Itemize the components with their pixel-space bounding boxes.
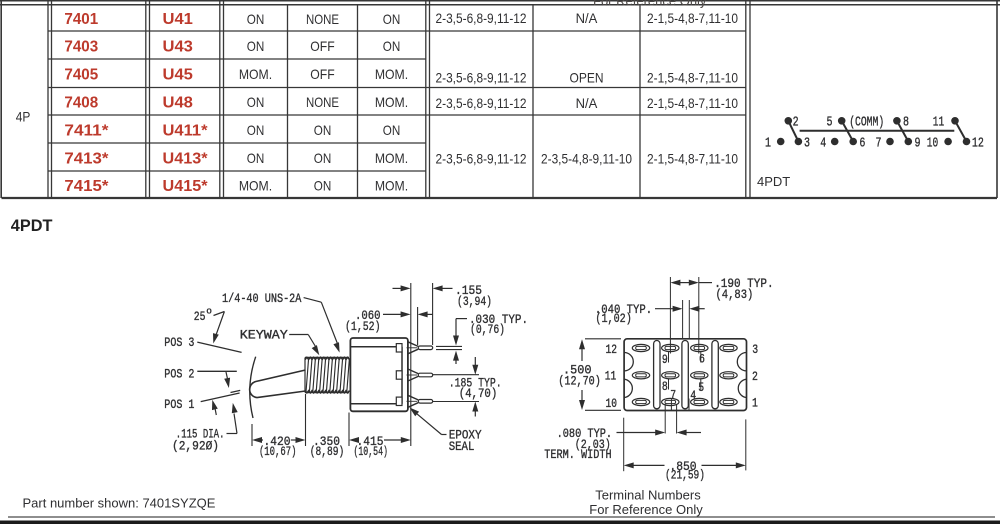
terminal lug <box>720 372 737 379</box>
divider slot <box>682 341 688 409</box>
svg-text:ON: ON <box>247 11 265 27</box>
body wall notch <box>396 371 402 379</box>
dim .850 <box>623 418 625 472</box>
thread crest serration top <box>305 357 349 359</box>
svg-text:2-3,5-6,8-9,11-12: 2-3,5-6,8-9,11-12 <box>436 69 527 85</box>
svg-text:U43: U43 <box>163 38 193 55</box>
svg-text:ON: ON <box>314 150 332 166</box>
svg-text:25: 25 <box>194 309 206 324</box>
terminal pin <box>418 400 433 404</box>
svg-text:(21,59): (21,59) <box>665 468 705 483</box>
svg-text:(10,54): (10,54) <box>353 444 388 459</box>
label leaders <box>668 351 670 363</box>
svg-text:(1,02): (1,02) <box>595 311 631 326</box>
svg-text:6: 6 <box>699 352 705 367</box>
svg-text:2-3,5-6,8-9,11-12: 2-3,5-6,8-9,11-12 <box>436 151 527 167</box>
package outline <box>624 339 746 411</box>
ext lines .190 <box>669 277 671 354</box>
double divider: connected terminals | schematic cell <box>746 1 750 198</box>
svg-text:(10,67): (10,67) <box>259 444 297 459</box>
svg-text:7401: 7401 <box>64 11 98 28</box>
wire pole contact 2-3 <box>788 121 798 142</box>
svg-text:U411*: U411* <box>163 122 209 139</box>
svg-text:9: 9 <box>662 352 668 367</box>
svg-text:2: 2 <box>752 369 758 384</box>
threaded bushing outline 1/4-40 <box>305 357 349 359</box>
short line above POS1 leader <box>231 390 241 392</box>
25 deg angle arrow (upper) <box>226 372 228 381</box>
terminal lug <box>662 372 679 379</box>
svg-text:NONE: NONE <box>306 11 339 27</box>
svg-text:3: 3 <box>804 135 810 151</box>
svg-text:2-3,5-4,8-9,11-10: 2-3,5-4,8-9,11-10 <box>541 151 632 167</box>
body inner bottom wall <box>350 403 402 405</box>
terminal lug <box>691 398 708 405</box>
svg-text:Part number shown: 7401SYZQE: Part number shown: 7401SYZQE <box>23 495 216 510</box>
dim .185 TYP <box>433 374 479 376</box>
svg-text:2-1,5-4,8-7,11-10: 2-1,5-4,8-7,11-10 <box>647 151 738 167</box>
double divider: positions | connected terminals <box>426 1 430 198</box>
thread crest serration bottom <box>305 391 349 393</box>
dim .080 TYP / TERM WIDTH <box>664 404 666 434</box>
svg-text:10: 10 <box>927 135 938 151</box>
svg-text:(8,89): (8,89) <box>310 444 345 459</box>
terminal dot 5 (COMM) <box>838 117 846 125</box>
terminal lug <box>662 344 679 351</box>
svg-text:7413*: 7413* <box>64 150 109 167</box>
switch body outline <box>350 338 408 411</box>
terminal dot 6 <box>849 138 857 146</box>
terminal dot 3 <box>795 138 803 146</box>
terminal lug <box>632 372 649 379</box>
svg-text:MOM.: MOM. <box>239 66 272 82</box>
body inner right wall <box>401 347 403 404</box>
svg-text:2-3,5-6,8-9,11-12: 2-3,5-6,8-9,11-12 <box>436 10 527 26</box>
terminal pin <box>418 346 433 350</box>
svg-text:NONE: NONE <box>306 94 339 110</box>
table left border <box>0 1 2 198</box>
terminal lug <box>720 398 737 405</box>
terminal lug <box>632 398 649 405</box>
svg-text:ON: ON <box>247 122 265 138</box>
svg-text:U413*: U413* <box>163 150 209 167</box>
lever swing arc <box>250 357 256 418</box>
terminal lug <box>691 344 708 351</box>
ext line pin root <box>417 307 419 345</box>
25 deg angle arrow (lower) <box>215 407 217 415</box>
svg-text:(1,52): (1,52) <box>345 319 381 334</box>
dim .415 <box>349 437 359 443</box>
svg-text:4PDT: 4PDT <box>757 174 790 189</box>
svg-text:(4,83): (4,83) <box>716 287 754 302</box>
terminal taper <box>408 369 418 374</box>
dim .190 TYP <box>670 280 680 286</box>
row line under 7405 <box>48 87 746 89</box>
terminal lug <box>662 398 679 405</box>
right edge cutout arcs <box>737 353 746 371</box>
terminal lug <box>632 344 649 351</box>
svg-text:(2,92Ø): (2,92Ø) <box>172 438 219 453</box>
svg-text:MOM.: MOM. <box>375 94 408 110</box>
POS 1 leader <box>201 393 240 402</box>
svg-text:U48: U48 <box>163 94 193 111</box>
terminal taper <box>408 342 418 347</box>
svg-text:(12,70): (12,70) <box>558 373 601 388</box>
double divider: 4P | model <box>48 1 52 198</box>
row line under 7408 <box>48 114 746 116</box>
bat lever <box>250 370 306 398</box>
svg-text:U45: U45 <box>163 66 193 83</box>
wire pole contact 11-12 <box>955 121 967 142</box>
svg-text:MOM.: MOM. <box>239 178 272 194</box>
left edge cutout arcs <box>624 353 633 371</box>
svg-text:(COMM): (COMM) <box>849 115 884 131</box>
svg-text:ON: ON <box>383 122 401 138</box>
svg-text:o: o <box>206 306 212 317</box>
svg-text:7411*: 7411* <box>64 122 109 139</box>
row line under 7413 (left cols only) <box>48 170 426 172</box>
wire pole contact 5-6 <box>842 121 854 142</box>
svg-text:4P: 4P <box>16 110 31 125</box>
terminal dot 9 <box>905 138 913 146</box>
svg-text:OPEN: OPEN <box>570 69 604 85</box>
thread flank lines <box>306 358 349 392</box>
svg-text:MOM.: MOM. <box>375 150 408 166</box>
schematic common bar wire <box>800 130 955 132</box>
POS 2 leader <box>197 370 237 372</box>
table bottom border <box>2 197 998 199</box>
ext line body left <box>348 413 350 447</box>
svg-text:TERM. WIDTH: TERM. WIDTH <box>544 447 611 462</box>
svg-text:12: 12 <box>972 135 984 151</box>
.115 leader <box>227 433 238 435</box>
svg-text:U41: U41 <box>163 11 193 28</box>
svg-text:1: 1 <box>765 135 771 151</box>
dim .420 <box>252 437 262 443</box>
svg-text:ON: ON <box>383 38 401 54</box>
UNS-2A leader <box>304 298 322 303</box>
divider positions col1|col2 <box>287 5 289 198</box>
svg-text:12: 12 <box>606 342 618 357</box>
dim .500 <box>585 338 621 340</box>
svg-text:2-1,5-4,8-7,11-10: 2-1,5-4,8-7,11-10 <box>647 95 738 111</box>
svg-text:6: 6 <box>859 135 865 151</box>
wire pole contact 8-9 <box>897 121 908 142</box>
terminal dot 7 <box>886 138 894 146</box>
svg-text:7415*: 7415* <box>64 178 109 195</box>
svg-text:Terminal Numbers: Terminal Numbers <box>595 488 701 503</box>
divider connected col1|col2 <box>532 5 534 198</box>
svg-text:SEAL: SEAL <box>449 439 475 454</box>
terminal dot 4 <box>831 138 839 146</box>
row line under 7403 (left cols only) <box>48 58 426 60</box>
svg-text:4: 4 <box>690 388 696 403</box>
KEYWAY leader <box>289 334 308 336</box>
row line under 7401 <box>48 30 746 32</box>
svg-text:11: 11 <box>605 368 617 383</box>
svg-text:KEYWAY: KEYWAY <box>240 327 288 342</box>
terminal dot 8 <box>893 117 901 125</box>
svg-text:1/4-40 UNS-2A: 1/4-40 UNS-2A <box>222 291 302 306</box>
footer rule <box>8 516 995 518</box>
double divider: model | U-code <box>146 1 150 198</box>
svg-text:(0,76): (0,76) <box>470 322 505 337</box>
divider positions col2|col3 <box>357 5 359 198</box>
svg-text:POS 2: POS 2 <box>164 366 194 381</box>
svg-text:ON: ON <box>383 11 401 27</box>
svg-text:U415*: U415* <box>163 178 209 195</box>
svg-text:3: 3 <box>752 342 758 357</box>
25 deg leader <box>214 312 225 316</box>
svg-text:11: 11 <box>933 115 944 131</box>
double divider: U-code | positions <box>220 1 224 198</box>
ext line thread start <box>305 394 307 446</box>
ext lines .040 <box>682 300 684 339</box>
divider connected col2|col3 <box>639 5 641 198</box>
svg-text:7405: 7405 <box>64 66 98 83</box>
svg-text:ON: ON <box>247 38 265 54</box>
svg-text:10: 10 <box>606 396 618 411</box>
epoxy leader <box>442 434 447 436</box>
svg-text:2-3,5-6,8-9,11-12: 2-3,5-6,8-9,11-12 <box>436 95 527 111</box>
svg-text:1: 1 <box>752 396 758 411</box>
svg-text:5: 5 <box>827 115 833 131</box>
body wall notch <box>396 397 402 405</box>
body inner top wall <box>350 346 402 348</box>
svg-text:7: 7 <box>876 135 882 151</box>
svg-text:9: 9 <box>915 135 921 151</box>
ext line pin tip <box>432 283 434 345</box>
svg-text:8: 8 <box>662 379 668 394</box>
divider slot <box>712 341 718 409</box>
divider slot <box>654 341 660 409</box>
svg-text:N/A: N/A <box>576 95 598 111</box>
POS 3 leader <box>197 342 241 352</box>
svg-text:MOM.: MOM. <box>375 66 408 82</box>
svg-text:N/A: N/A <box>576 10 598 26</box>
body wall notch <box>396 344 402 352</box>
ext line body right edge <box>410 283 412 446</box>
table right border <box>996 1 998 198</box>
svg-text:ON: ON <box>247 94 265 110</box>
svg-text:4PDT: 4PDT <box>11 216 53 235</box>
svg-text:OFF: OFF <box>310 66 334 82</box>
svg-text:7403: 7403 <box>64 38 98 55</box>
svg-text:7408: 7408 <box>64 94 98 111</box>
svg-text:ON: ON <box>314 178 332 194</box>
svg-text:ON: ON <box>247 150 265 166</box>
terminal dot 2 <box>785 117 793 125</box>
svg-text:(4,70): (4,70) <box>459 386 498 401</box>
row line under 7411 (left cols only) <box>48 142 426 144</box>
svg-text:2: 2 <box>793 115 799 131</box>
svg-text:ON: ON <box>314 122 332 138</box>
svg-text:POS 3: POS 3 <box>164 335 194 350</box>
terminal taper <box>408 395 418 400</box>
svg-text:4: 4 <box>820 135 826 151</box>
bottom black bar <box>0 521 1000 524</box>
terminal lug <box>691 372 708 379</box>
dim .155 <box>393 287 402 289</box>
svg-text:For Reference Only: For Reference Only <box>593 0 707 9</box>
svg-text:OFF: OFF <box>310 38 334 54</box>
svg-text:POS 1: POS 1 <box>164 397 194 412</box>
svg-text:8: 8 <box>903 115 909 131</box>
svg-text:2-1,5-4,8-7,11-10: 2-1,5-4,8-7,11-10 <box>647 10 738 26</box>
ext line lever tip <box>251 424 253 446</box>
terminal pin <box>418 373 433 377</box>
svg-text:(3,94): (3,94) <box>457 294 492 309</box>
terminal dot 12 <box>963 138 971 146</box>
svg-text:2-1,5-4,8-7,11-10: 2-1,5-4,8-7,11-10 <box>647 69 738 85</box>
terminal dot 10 <box>944 138 952 146</box>
svg-text:For Reference Only: For Reference Only <box>589 502 703 517</box>
terminal dot 1 <box>777 138 785 146</box>
table top border (double line) <box>0 1 1000 5</box>
svg-text:MOM.: MOM. <box>375 178 408 194</box>
terminal lug <box>720 344 737 351</box>
terminal dot 11 <box>951 117 959 125</box>
